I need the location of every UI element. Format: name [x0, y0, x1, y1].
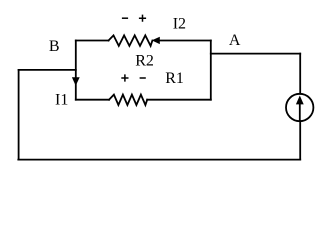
svg-text:I2: I2: [173, 15, 186, 32]
current source circle: [286, 94, 313, 121]
polarity minus above R1: [140, 77, 146, 79]
wire top right segment: [159, 40, 211, 42]
wire node A horizontal: [211, 53, 300, 55]
wire right vertical above source: [299, 54, 301, 94]
current source arrow shaft: [299, 103, 301, 120]
svg-text:B: B: [49, 38, 60, 55]
svg-text:A: A: [229, 32, 241, 49]
wire left inner vertical (B branch): [75, 41, 77, 100]
wire bottom right segment: [147, 99, 211, 101]
wire left outer horizontal: [19, 69, 76, 71]
current source arrowhead (points up): [296, 96, 304, 105]
polarity plus above R1: [121, 74, 128, 81]
polarity minus above R2: [122, 17, 128, 19]
svg-text:I1: I1: [55, 92, 68, 109]
polarity plus above R2: [139, 15, 146, 22]
wire inner right vertical: [210, 41, 212, 100]
wire top left segment: [76, 40, 109, 42]
wire bottom left segment: [76, 99, 109, 101]
arrowhead I2 (points left): [152, 37, 160, 44]
resistor R2: [109, 35, 153, 46]
svg-text:R1: R1: [165, 70, 184, 87]
svg-text:R2: R2: [135, 52, 154, 69]
wire right vertical below source: [299, 121, 301, 159]
resistor R1: [109, 95, 147, 105]
wire bottom outer: [18, 159, 300, 161]
arrowhead I1 (points down): [72, 77, 80, 86]
wire left outer vertical: [18, 70, 20, 160]
